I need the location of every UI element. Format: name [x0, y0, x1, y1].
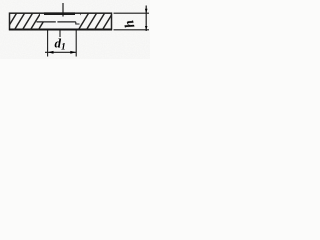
centerline below — [59, 31, 61, 38]
hole floor line (right segment) — [57, 21, 75, 23]
arrowhead d1 left — [48, 51, 54, 54]
extension line d1 right — [75, 31, 77, 57]
arrowhead d1 right — [70, 51, 76, 54]
extension line h bottom — [114, 29, 150, 31]
extension line d1 left — [47, 31, 49, 57]
paper noise — [0, 0, 150, 59]
hole top edge thick bar — [44, 12, 75, 15]
hole floor line (left segment) — [37, 21, 56, 23]
extension line h top — [114, 12, 150, 14]
hatching right block — [70, 13, 113, 31]
washer body outline — [10, 13, 112, 29]
arrowhead h bottom — [145, 26, 148, 30]
dimension line d1 — [45, 51, 76, 53]
background — [0, 0, 150, 59]
washer bottom edge (thick) — [9, 29, 112, 31]
hatching left block — [6, 13, 49, 31]
hole floor step right — [76, 22, 80, 24]
arrowhead h top — [145, 9, 148, 13]
dimension line h — [145, 6, 147, 32]
centerline above — [62, 3, 64, 17]
